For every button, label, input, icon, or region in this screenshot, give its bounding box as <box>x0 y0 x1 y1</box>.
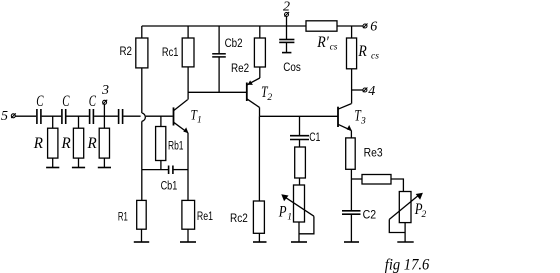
svg-text:fig 17.6: fig 17.6 <box>385 256 430 273</box>
svg-text:cs: cs <box>371 51 379 61</box>
svg-text:Rc1: Rc1 <box>162 47 179 59</box>
svg-text:R: R <box>61 135 71 152</box>
svg-text:1: 1 <box>287 213 292 223</box>
svg-text:cs: cs <box>330 43 338 53</box>
svg-text:1: 1 <box>197 115 202 125</box>
svg-text:R2: R2 <box>120 46 133 58</box>
svg-text:4: 4 <box>368 84 375 99</box>
svg-text:C1: C1 <box>309 132 320 144</box>
svg-text:5: 5 <box>1 109 8 124</box>
svg-text:C: C <box>89 93 96 110</box>
svg-text:C2: C2 <box>363 210 377 222</box>
svg-text:3: 3 <box>101 83 109 98</box>
svg-text:3: 3 <box>360 117 366 127</box>
svg-text:R′: R′ <box>316 34 329 51</box>
svg-text:Rb1: Rb1 <box>168 141 184 153</box>
svg-text:C: C <box>36 93 43 110</box>
svg-text:Re2: Re2 <box>231 63 249 75</box>
svg-text:2: 2 <box>422 210 427 220</box>
svg-text:R1: R1 <box>118 211 128 223</box>
svg-text:2: 2 <box>283 0 290 14</box>
svg-text:Cb1: Cb1 <box>161 180 178 192</box>
svg-text:Rc2: Rc2 <box>230 213 248 225</box>
svg-text:P: P <box>278 204 287 221</box>
svg-text:6: 6 <box>370 19 377 34</box>
svg-text:Re1: Re1 <box>197 211 213 223</box>
svg-text:Cb2: Cb2 <box>225 38 243 50</box>
svg-text:C: C <box>62 93 69 110</box>
svg-text:R: R <box>358 43 367 60</box>
svg-text:R: R <box>87 135 97 152</box>
svg-text:2: 2 <box>267 93 272 103</box>
svg-text:Cos: Cos <box>283 62 301 74</box>
svg-text:Re3: Re3 <box>364 148 383 160</box>
svg-text:R: R <box>33 135 43 152</box>
